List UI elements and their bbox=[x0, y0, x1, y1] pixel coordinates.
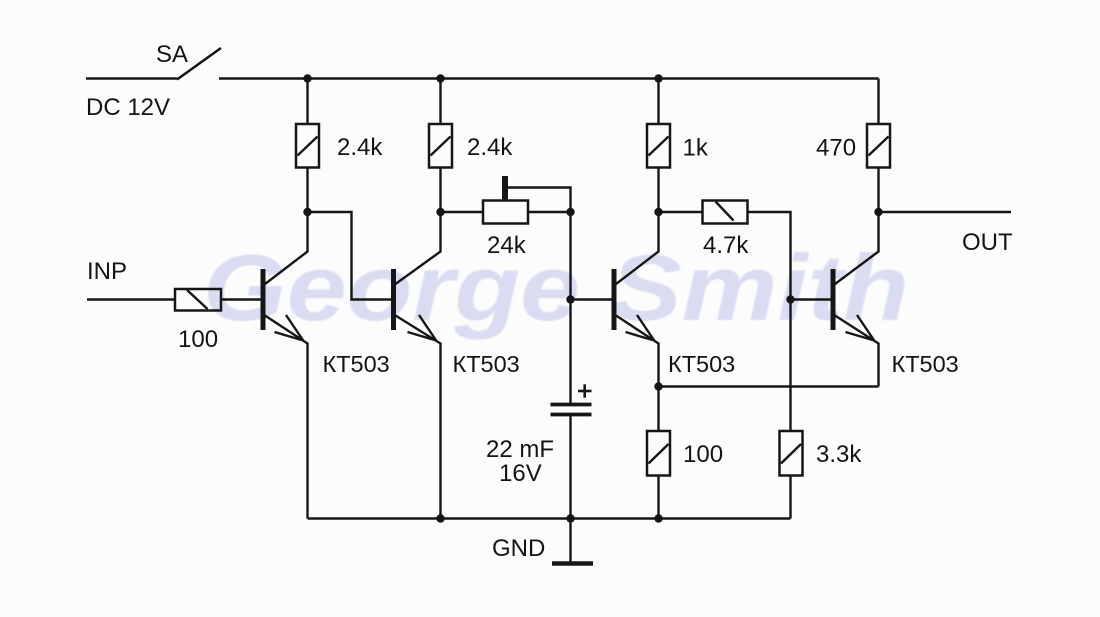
svg-text:1k: 1k bbox=[683, 135, 709, 162]
capacitor C 22mF top plate bbox=[551, 403, 592, 407]
trimmer R 24k body bbox=[483, 201, 528, 224]
resistor R 4.7k power slash bbox=[716, 202, 734, 221]
svg-text:100: 100 bbox=[178, 326, 218, 353]
transistor Q1 collector bbox=[265, 212, 308, 284]
svg-text:КТ503: КТ503 bbox=[453, 351, 520, 377]
resistor R 2.4k #1 body bbox=[296, 124, 319, 168]
transistor Q2 collector bbox=[396, 212, 441, 284]
trimmer R 24k wiper stub bbox=[502, 176, 508, 201]
wire: center vertical node down to capacitor bbox=[569, 212, 571, 404]
transistor Q3 emitter bbox=[616, 316, 659, 388]
transistor Q3 base bar bbox=[612, 269, 617, 330]
transistor Q4 emitter arrow bbox=[857, 315, 875, 341]
resistor R 2.4k #1 power slash bbox=[298, 137, 318, 156]
node: rail / 1k bbox=[654, 74, 662, 82]
wire: 100 bottom to ground rail bbox=[657, 476, 659, 519]
capacitor plus sign bbox=[578, 390, 592, 393]
wire: 4.7k right down to Q4 base and 3.3k bbox=[748, 212, 791, 431]
node: Q1 collector bbox=[303, 208, 311, 216]
wire: top rail down to resistor 1k bbox=[657, 79, 659, 125]
wire: Q3 base tap bbox=[571, 298, 615, 300]
svg-text:George Smith: George Smith bbox=[203, 235, 909, 340]
resistor R 1k power slash bbox=[649, 137, 669, 156]
svg-text:SA: SA bbox=[156, 41, 188, 68]
resistor R 100 input body bbox=[175, 289, 221, 311]
node: trimmer right bbox=[566, 208, 574, 216]
svg-text:КТ503: КТ503 bbox=[668, 351, 735, 377]
wire: emitter bus Q4 to Q3 bbox=[659, 385, 879, 387]
ground stub bbox=[569, 519, 571, 563]
svg-text:DC 12V: DC 12V bbox=[86, 94, 170, 121]
trimmer R 24k wiper link bbox=[505, 188, 571, 213]
transistor Q3 collector bbox=[616, 212, 659, 284]
wire: top rail after switch bbox=[219, 77, 879, 79]
transistor Q3 emitter arrow bbox=[637, 315, 655, 341]
wire: emitter bus down to resistor 100 bbox=[657, 387, 659, 432]
wire: 2.4k #2 bottom to node bbox=[439, 168, 441, 213]
transistor Q2 emitter bbox=[396, 316, 441, 519]
resistor R 470 body bbox=[867, 124, 890, 168]
node: rail / 2.4k#1 bbox=[303, 74, 311, 82]
wire: 3.3k bottom to ground rail bbox=[789, 476, 791, 519]
svg-text:470: 470 bbox=[816, 135, 856, 162]
node: rail / 2.4k#2 bbox=[436, 74, 444, 82]
wire: trimmer right terminal bbox=[528, 211, 571, 213]
svg-text:4.7k: 4.7k bbox=[703, 232, 749, 259]
svg-text:2.4k: 2.4k bbox=[337, 134, 383, 161]
svg-text:GND: GND bbox=[492, 535, 545, 562]
resistor R 100 emitter body bbox=[647, 431, 670, 476]
transistor Q1 base bar bbox=[261, 269, 266, 330]
svg-text:16V: 16V bbox=[499, 460, 542, 487]
wire: top rail down to resistor 2.4k #2 bbox=[439, 79, 441, 125]
svg-text:24k: 24k bbox=[487, 232, 527, 259]
transistor Q1 emitter arrow bbox=[286, 315, 304, 341]
svg-text:КТ503: КТ503 bbox=[323, 351, 390, 377]
wire: Q4 base lead bbox=[791, 298, 834, 300]
wire: bottom ground rail bbox=[308, 517, 791, 519]
svg-text:КТ503: КТ503 bbox=[892, 351, 959, 377]
resistor R 470 power slash bbox=[869, 137, 889, 156]
node: Q2 collector bbox=[436, 208, 444, 216]
wire: top rail down to resistor 2.4k #1 bbox=[306, 79, 308, 125]
capacitor C 22mF bottom plate bbox=[551, 413, 592, 417]
node: ground rail / Q2 emitter bbox=[436, 514, 444, 522]
wire: OUT lead bbox=[879, 211, 1012, 213]
resistor R 3.3k power slash bbox=[781, 444, 801, 464]
node: Q3 emitter bbox=[654, 382, 662, 390]
transistor Q4 collector bbox=[835, 212, 879, 284]
wire: input resistor to Q1 base bbox=[221, 298, 263, 300]
transistor Q2 emitter arrow bbox=[419, 315, 437, 341]
resistor R 100 input power slash bbox=[187, 290, 208, 309]
resistor R 3.3k body bbox=[780, 431, 803, 476]
transistor Q2 base bar bbox=[391, 269, 396, 330]
wire: Q1 collector node to coupling corner bbox=[308, 212, 394, 300]
transistor Q4 base bar bbox=[831, 269, 836, 330]
wire: INP lead bbox=[87, 298, 175, 300]
svg-text:100: 100 bbox=[683, 441, 723, 468]
svg-text:22 mF: 22 mF bbox=[486, 436, 554, 463]
transistor Q1 emitter bbox=[265, 316, 308, 519]
ground bar bbox=[552, 561, 593, 566]
resistor R 2.4k #2 body bbox=[429, 124, 452, 168]
wire: capacitor bottom to ground rail bbox=[569, 415, 571, 519]
node: ground rail / 100 bbox=[654, 514, 662, 522]
node: ground rail / capacitor bbox=[566, 514, 574, 522]
svg-text:2.4k: 2.4k bbox=[467, 134, 513, 161]
wire: top rail corner down to resistor 470 bbox=[877, 79, 879, 125]
transistor Q4 emitter bbox=[835, 316, 879, 387]
resistor R 2.4k #2 power slash bbox=[431, 137, 451, 156]
node: Q4 base bbox=[786, 295, 794, 303]
wire: 1k bottom to node bbox=[657, 168, 659, 213]
resistor R 100 emitter power slash bbox=[649, 444, 669, 464]
wire: 470 bottom to OUT node bbox=[877, 168, 879, 213]
wire: 1k node to resistor 4.7k bbox=[659, 211, 703, 213]
svg-text:OUT: OUT bbox=[962, 229, 1013, 256]
resistor R 4.7k body bbox=[703, 201, 748, 224]
node: OUT bbox=[874, 208, 882, 216]
wire: left supply lead bbox=[86, 77, 177, 79]
resistor R 1k body bbox=[647, 124, 670, 168]
wire: 2.4k #1 bottom to node bbox=[306, 168, 308, 213]
wire: node to trimmer 24k left bbox=[441, 211, 484, 213]
node: Q3 base bbox=[566, 295, 574, 303]
svg-text:INP: INP bbox=[87, 258, 127, 285]
svg-text:3.3k: 3.3k bbox=[816, 441, 862, 468]
node: Q3 collector bbox=[654, 208, 662, 216]
switch SA blade bbox=[177, 48, 221, 80]
